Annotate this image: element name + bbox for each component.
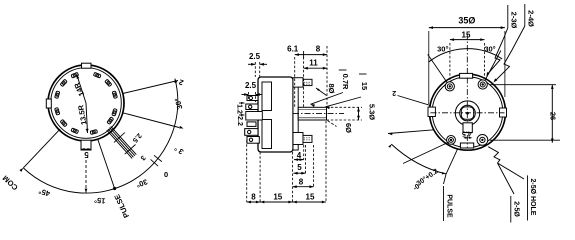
svg-text:5: 5 <box>297 163 302 172</box>
middle view body <box>258 77 293 152</box>
terminal pins <box>107 126 137 158</box>
body inner block bottom <box>262 120 272 149</box>
svg-text:0: 0 <box>164 170 168 179</box>
hole top-right <box>478 80 487 89</box>
right view circle <box>430 74 506 150</box>
svg-text:2.5: 2.5 <box>249 52 261 61</box>
svg-text:8Ø: 8Ø <box>327 83 336 93</box>
svg-text:3: 3 <box>139 154 147 162</box>
svg-text:4.5: 4.5 <box>462 129 472 136</box>
leader 1 tick <box>123 113 179 128</box>
middle pin plate <box>246 112 262 121</box>
hole bottom-right <box>477 135 488 146</box>
contact pads ring <box>55 72 118 134</box>
2-5 dia hole leaders <box>488 147 500 163</box>
svg-text:30°: 30° <box>135 177 149 189</box>
svg-text:2-5Ø HOLE: 2-5Ø HOLE <box>529 179 536 216</box>
svg-text:3 °: 3 ° <box>173 144 186 157</box>
svg-text:5: 5 <box>84 150 89 159</box>
tolerance wedge <box>388 130 434 134</box>
svg-text:30°: 30° <box>437 45 448 54</box>
extension verticals <box>294 57 296 107</box>
svg-text:30°+0.2: 30°+0.2 <box>415 167 440 188</box>
left tab <box>46 99 51 108</box>
svg-text:15: 15 <box>306 193 315 202</box>
6 dia <box>328 121 337 127</box>
svg-text:PULSE: PULSE <box>446 194 453 218</box>
5.3 dia <box>327 106 363 108</box>
shaft centerline <box>293 113 344 115</box>
center boss <box>455 101 479 125</box>
top lug <box>293 78 303 87</box>
30 deg arc top <box>428 49 502 63</box>
svg-text:15: 15 <box>462 31 471 40</box>
pulse radial right view <box>446 149 458 174</box>
pulse radial <box>98 139 115 188</box>
svg-text:2.2: 2.2 <box>236 116 243 126</box>
svg-text:35Ø: 35Ø <box>458 16 475 26</box>
COM leader <box>23 129 60 168</box>
0 and 3deg ticks <box>151 159 158 166</box>
26 dim <box>490 84 556 86</box>
svg-text:COM: COM <box>1 174 20 193</box>
svg-text:6Ø: 6Ø <box>344 123 353 133</box>
angle dimension arc <box>23 79 178 193</box>
hole bottom-left <box>447 136 456 145</box>
svg-text:PULSE: PULSE <box>112 193 131 219</box>
svg-text:15: 15 <box>360 82 369 90</box>
15 leader <box>359 73 367 75</box>
pins left side <box>247 96 258 101</box>
svg-text:2.5: 2.5 <box>245 81 257 90</box>
bottom tab with 5 dim <box>81 140 91 150</box>
svg-text:1.2: 1.2 <box>236 104 243 114</box>
svg-text:15: 15 <box>273 193 282 202</box>
13.5R leader <box>86 103 88 133</box>
bl hole leader <box>403 142 449 164</box>
below-center rect 4.5 <box>463 123 472 133</box>
svg-text:2-5Ø: 2-5Ø <box>513 201 520 217</box>
right view tabs <box>460 73 473 78</box>
svg-text:8: 8 <box>316 45 321 54</box>
hole top-left <box>445 82 454 91</box>
svg-text:2: 2 <box>392 89 396 96</box>
svg-text:8: 8 <box>251 193 256 202</box>
svg-text:6.1: 6.1 <box>287 45 299 54</box>
svg-text:26: 26 <box>549 112 558 120</box>
dim 1.2 <box>239 102 245 104</box>
svg-text:2-4Ø: 2-4Ø <box>527 10 536 27</box>
shaft <box>298 107 326 120</box>
left leader with 2 label <box>398 96 431 106</box>
center vertical dashed <box>466 34 468 77</box>
centerlines right view <box>431 112 505 114</box>
body inner block top <box>262 82 272 111</box>
pin dim ticks <box>114 133 125 143</box>
vertical reference dashed <box>85 160 87 193</box>
svg-text:15°: 15° <box>94 196 106 206</box>
left view inner ring <box>51 68 122 139</box>
14R leader <box>77 75 86 104</box>
0.7R leader <box>339 69 347 71</box>
svg-text:2: 2 <box>178 77 185 87</box>
top tab <box>82 63 92 68</box>
svg-text:30°: 30° <box>484 45 495 54</box>
svg-text:45°: 45° <box>38 187 51 199</box>
bottom lug <box>293 133 303 145</box>
mounting plate <box>295 81 297 149</box>
svg-text:5.3Ø: 5.3Ø <box>368 104 377 120</box>
leader 2 <box>123 81 178 94</box>
bottom dim row <box>247 201 326 203</box>
svg-text:11: 11 <box>309 59 318 68</box>
svg-text:30°: 30° <box>173 97 185 110</box>
svg-text:0.7R: 0.7R <box>341 74 350 90</box>
svg-text:2.5: 2.5 <box>131 132 143 144</box>
left view: front face circle <box>48 65 124 141</box>
svg-text:2-3Ø: 2-3Ø <box>510 12 519 29</box>
hole radials <box>428 54 450 86</box>
svg-text:8: 8 <box>299 178 304 187</box>
